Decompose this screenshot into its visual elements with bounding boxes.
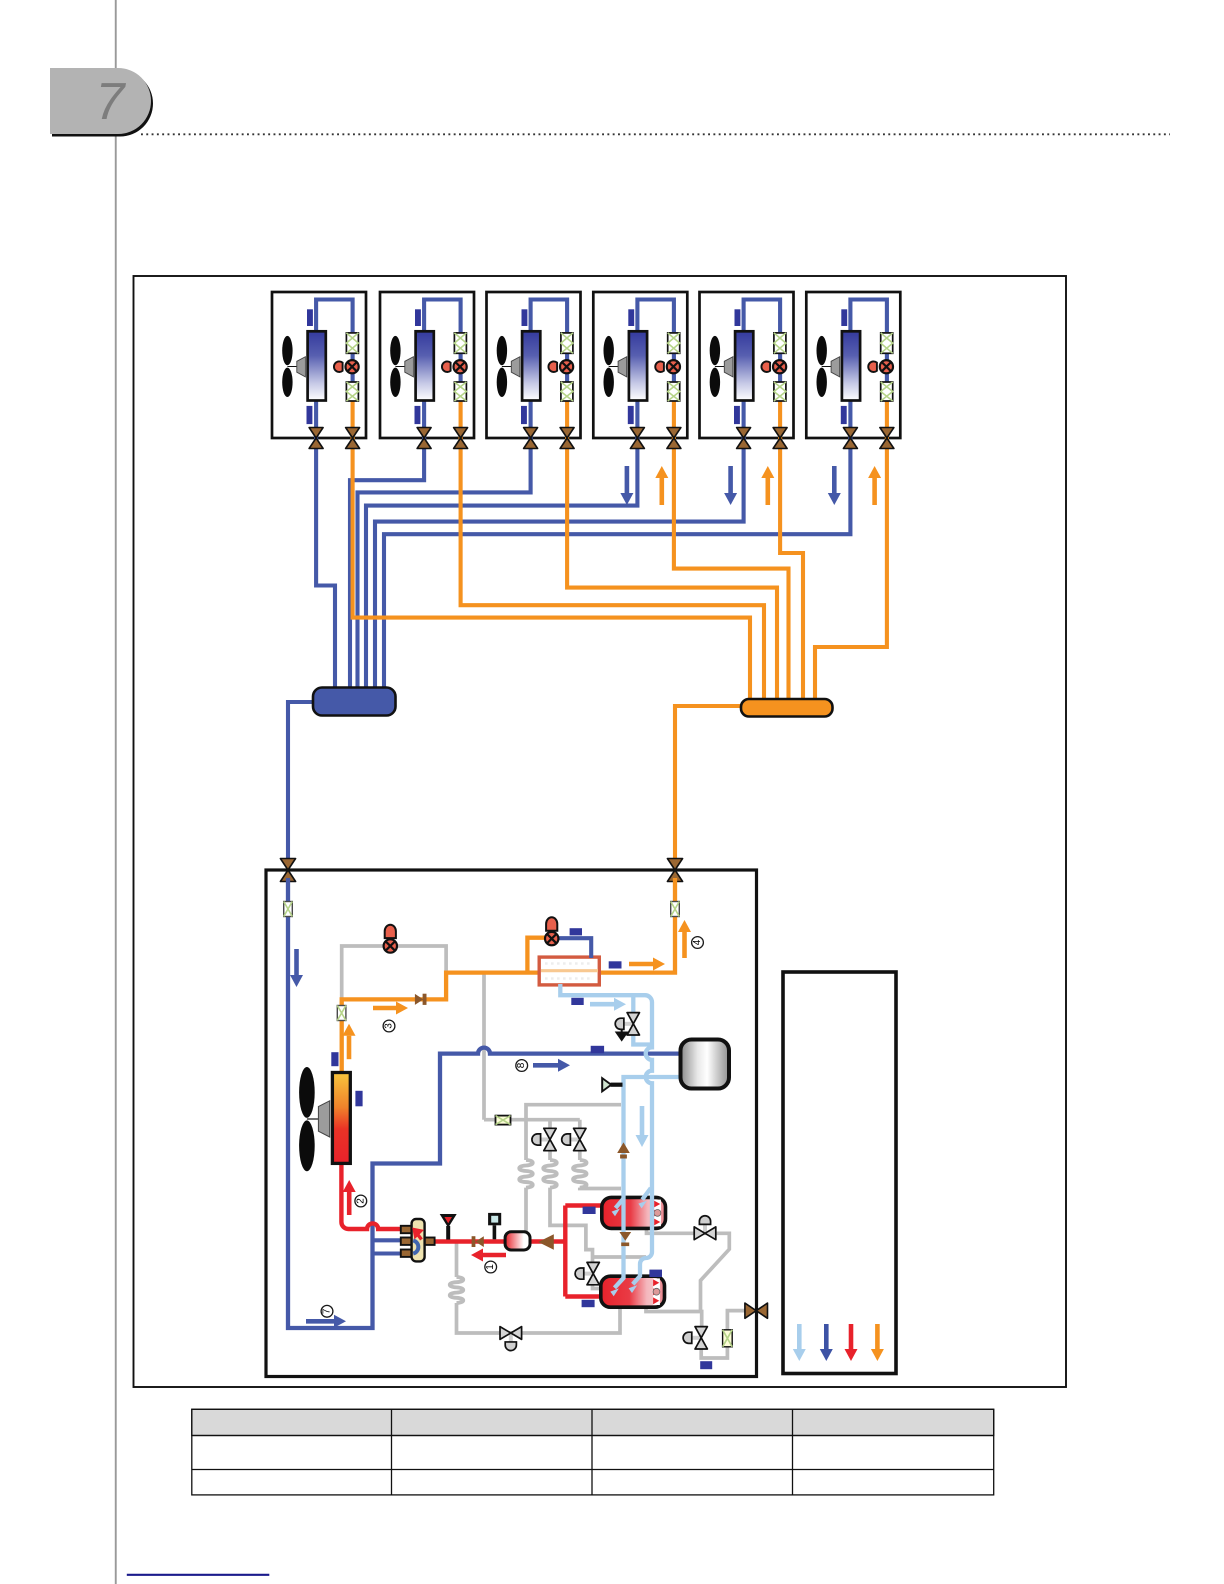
liquid service valve [667,859,682,882]
wire suction line inside outdoor unit [288,878,682,1328]
strainer on oil service line [723,1330,733,1347]
node 4 label [692,937,704,949]
indoor unit 1 [272,292,366,444]
indoor unit 4 liquid stop valve [667,428,681,449]
outdoor unit enclosure [266,870,757,1377]
gas header manifold [313,688,396,716]
indoor unit 5 liquid stop valve [773,428,787,449]
discharge junction arrow [538,1234,554,1250]
indoor unit 6 [806,292,900,444]
suction branch into compressor1 left [616,1199,624,1209]
wire indoor unit5 gas pipe [375,438,744,690]
page margin rule [115,0,117,1584]
wire oil equalize compressor1 [647,1225,730,1312]
sensor left of condenser inlet [331,1052,338,1066]
node 8 label [516,1060,528,1072]
legend arrow suction gas [824,1324,829,1349]
wire oil branch from liquid line [484,973,580,1120]
wire main liquid line header to outdoor unit [675,706,742,861]
expansion valve EEV-B on subcool loop [384,925,397,953]
wire EEV-C outlet to plate HX [559,938,592,958]
indoor unit 4 [593,292,687,444]
wire solenoid B branch [580,1120,621,1189]
indoor unit 6 liquid stop valve [880,428,894,449]
solenoid valve C [581,1272,594,1276]
node 2 label [355,1195,367,1207]
specification table [192,1409,994,1495]
gas service valve [280,859,295,882]
indoor unit 5 [700,292,794,444]
wire oil balance line bottom [457,1242,621,1334]
indoor unit 2 liquid stop valve [454,428,468,449]
flow arrow right suction [533,1063,558,1068]
outdoor fan [299,1067,330,1171]
svg-text:7: 7 [96,73,127,131]
sensor on oil service line [700,1361,712,1369]
oil valve F [509,1333,513,1345]
wire indoor unit1 gas pipe [316,438,335,690]
flow arrow left discharge [483,1253,506,1258]
flow arrow right subcool [373,1006,396,1011]
wire solenoid valve outlet [633,1034,652,1045]
plate heat exchanger [539,957,599,985]
condenser coil [332,1073,350,1164]
flow arrow down suction [294,949,299,975]
wire liquid branch to subcool EEV [527,938,546,973]
wire capillary 1 to oil separator [524,1120,528,1231]
indoor unit 1 liquid stop valve [346,428,360,449]
sensor on suction line [591,1046,604,1053]
wire indoor unit2 liquid pipe [461,438,764,700]
flow arrow up into condenser [347,1036,352,1060]
oil return arrow up [617,1142,630,1153]
flow arrow down (gas) [625,466,630,493]
svg-text:7: 7 [322,1308,333,1314]
wire liquid line inside outdoor unit [342,878,675,1073]
oil check element between compressors [619,1232,631,1241]
legend box [783,972,896,1374]
accumulator tank [681,1040,730,1089]
solenoid valve B [567,1138,580,1142]
solenoid valve on injection line [621,1022,634,1026]
strainer above condenser [337,1006,346,1021]
liquid header manifold [741,699,833,717]
wire indoor unit3 gas pipe [358,438,531,690]
footer rule [127,1574,269,1576]
wire discharge from condenser to 4-way valve [341,1163,402,1229]
legend arrow discharge gas [849,1324,854,1349]
subcool circuit gray loop [342,946,446,998]
check valve on discharge [472,1236,484,1247]
sensor right of condenser [355,1091,362,1107]
wire solenoid C outlet to compressor2 [593,1284,604,1289]
node 3 label [383,1020,395,1032]
flow arrow right low-pressure gas [590,1002,614,1007]
flow arrow right suction bottom [306,1319,334,1324]
svg-text:3: 3 [384,1023,395,1029]
suction branch into compressor1 right [642,1188,651,1200]
wire indoor unit2 gas pipe [350,438,424,690]
indoor unit 1 gas stop valve [309,428,323,449]
dotted separator line [141,133,1170,135]
wire indoor unit1 liquid pipe [353,438,750,700]
chapter tab 7 [50,68,153,137]
wire indoor unit3 liquid pipe [567,438,777,700]
wire indoor unit6 liquid pipe [815,438,887,700]
node 1 label [485,1261,497,1273]
indoor unit 5 gas stop valve [737,428,751,449]
flow arrow down (gas) [728,466,733,493]
flow arrow down low pressure gas [640,1106,645,1135]
oil service valve D [689,1336,702,1340]
arrow down on solenoid [617,1030,627,1040]
flow arrow up discharge [347,1192,352,1215]
wire indoor unit4 liquid pipe [674,438,789,700]
sensor compressor2 bottom [582,1300,595,1307]
flow arrow up liquid [682,932,687,958]
solenoid valve A [538,1138,551,1142]
compressor 1 [602,1197,666,1228]
sensor compressor1 discharge [583,1207,596,1214]
flow arrow up (liquid) [765,478,770,505]
indoor unit 3 liquid stop valve [560,428,574,449]
oil equalize valve E [703,1221,707,1233]
indoor unit 3 [487,292,581,444]
wire oil line up to accumulator outlet [526,1105,621,1120]
indoor unit 2 [380,292,474,444]
flow arrow up (liquid) [872,478,877,505]
wire indoor unit4 gas pipe [366,438,637,690]
legend arrow low-pressure gas [797,1324,802,1349]
wire indoor unit5 liquid pipe [780,438,803,700]
svg-text:8: 8 [516,1062,527,1068]
node 7 label [321,1305,333,1317]
wire suction stubs to 4-way valve [373,1240,403,1253]
wire accumulator outlet to compressors [615,1077,681,1288]
wire main gas line header to outdoor unit [288,702,315,861]
legend arrow liquid [875,1324,880,1349]
diagram outer frame [134,276,1067,1387]
check valve on liquid bottom line [415,994,427,1005]
service funnel on discharge [440,1214,457,1240]
flow arrow up (liquid) [659,478,664,505]
wire compressor2 drain to service valve [646,1305,746,1358]
oil drain funnel on accumulator outlet [601,1076,622,1093]
strainer on liquid line [671,902,680,917]
sensor on EEV-C outlet [570,928,582,935]
indoor unit 6 gas stop valve [843,428,857,449]
sensor on liquid line [609,961,622,968]
compressor 2 [601,1276,665,1307]
flow arrow right liquid [629,962,653,967]
flow arrow down (gas) [832,466,837,493]
wire indoor unit6 gas pipe [384,438,850,690]
svg-text:4: 4 [692,939,703,945]
sensor on low-pressure gas line [571,998,583,1005]
wire equalize to suction [593,1255,647,1259]
strainer on gas line [284,902,293,917]
wire discharge 4-way to oil separator and compressors [434,1206,603,1297]
4-way valve assembly [401,1219,435,1261]
sensor compressor2 top [649,1270,662,1277]
svg-text:1: 1 [485,1264,496,1270]
wire low-pressure gas from plate HX [560,984,652,1186]
wire suction drop to compressor2 [633,1186,652,1284]
indoor unit 3 gas stop valve [524,428,538,449]
svg-text:2: 2 [355,1198,366,1204]
indoor unit 4 gas stop valve [630,428,644,449]
wire branch to gas solenoid valve [631,995,635,1013]
wire solenoid A branch [550,1120,593,1263]
strainer on oil line [496,1116,511,1125]
pressure sensor on discharge [488,1213,501,1239]
oil service valve at casing [745,1303,768,1318]
oil separator [505,1232,530,1250]
indoor unit 2 gas stop valve [417,428,431,449]
